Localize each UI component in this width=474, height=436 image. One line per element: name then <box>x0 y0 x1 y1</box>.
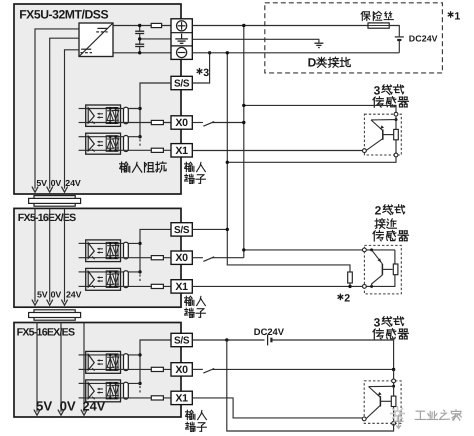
class-D ground symbol <box>314 43 323 47</box>
label 3-wire sensor bottom (Chinese) <box>373 315 409 339</box>
wire +24V rail to sensor2 <box>242 248 362 251</box>
svg-text:5V: 5V <box>36 178 47 188</box>
label input terminals block2 (Chinese) <box>185 296 206 317</box>
junction dot rail B top <box>242 24 245 27</box>
wire S/S to opto common column block1 <box>140 83 171 137</box>
label DC24V bottom <box>254 326 285 337</box>
extension bus connector between block1 and block2 <box>29 196 81 207</box>
label 3-wire sensor top (Chinese) <box>373 84 409 108</box>
wire S/S block3 to battery <box>192 338 264 341</box>
junction dots at capacitor column <box>138 24 141 55</box>
3-wire sensor S3 + terminal <box>392 379 396 383</box>
optocoupler PC2 block1 <box>79 133 121 154</box>
svg-text:2: 2 <box>344 293 350 305</box>
label FX5U-32MT/DSS <box>19 7 108 21</box>
optocoupler PC2 block3 <box>79 380 121 402</box>
svg-text:1: 1 <box>454 10 460 22</box>
5V rail arrow <box>32 187 38 193</box>
terminal X1 block2 <box>171 280 192 293</box>
pull-up resistor of PC2 block3 <box>121 382 141 399</box>
label FX5-16EX/ES block2 <box>18 212 76 224</box>
continuation ellipsis block2 <box>139 274 141 281</box>
note *1 <box>448 10 461 22</box>
wire sensor3 feed down <box>393 370 395 380</box>
wire sensor3 0V return loop <box>227 340 394 431</box>
filter capacitor C2 <box>135 39 144 53</box>
terminal X0 block2 <box>171 251 192 264</box>
svg-text:X0: X0 <box>175 252 188 264</box>
svg-text:X1: X1 <box>175 281 188 293</box>
wire opto1 to X0 resistor block1 <box>121 122 172 124</box>
wire S/S to opto common column block2 <box>140 229 171 272</box>
5V rail block3 <box>34 323 40 416</box>
svg-text:24V: 24V <box>65 178 81 188</box>
pull-up resistor of PC1 block3 <box>121 354 141 371</box>
optocoupler PC1 block1 <box>79 105 121 126</box>
sensor2 internal circuit <box>366 248 398 288</box>
3-wire sensor S3 output terminal <box>362 417 366 421</box>
svg-text:0V: 0V <box>51 290 62 300</box>
wire converter - output to terminal <box>113 52 171 54</box>
3-wire sensor S3 internal circuit <box>366 383 396 422</box>
junction dot X0 block1 to rail B <box>242 121 245 124</box>
terminal S/S block1 <box>171 76 192 89</box>
wire earth terminal to class-D ground <box>192 39 319 43</box>
terminal S/S block2 <box>171 223 192 236</box>
pull-up resistor of PC2 block1 <box>121 136 141 152</box>
3-wire sensor S1 + terminal <box>394 112 398 116</box>
svg-text:S/S: S/S <box>174 225 190 236</box>
label input terminals block3 (Chinese) <box>186 410 207 431</box>
junction dot opto1 feed block1 <box>138 107 141 110</box>
extension unit FX5-16EX/ES enclosure (block2) <box>14 208 181 307</box>
3-wire sensor S3 0V terminal <box>392 421 396 425</box>
bleed resistor *2 <box>348 272 353 288</box>
fuse F1 <box>368 23 389 28</box>
label class-D grounding (Chinese) <box>308 56 351 70</box>
label DC24V top <box>409 33 438 43</box>
battery DC24V (external supply) <box>395 37 404 53</box>
3-wire sensor S3 dashed enclosure <box>364 381 401 423</box>
optocoupler PC2 block2 <box>79 268 121 290</box>
filter capacitor C1 <box>135 26 144 39</box>
terminal X0 block3 <box>171 363 192 376</box>
sensor2 + terminal <box>363 248 367 252</box>
terminal - (circle minus) <box>177 47 187 57</box>
svg-text:FX5U-32MT/DSS: FX5U-32MT/DSS <box>19 7 108 21</box>
terminal earth (ground symbol) <box>175 34 188 44</box>
note *3 <box>197 67 210 79</box>
note *2 <box>338 293 351 305</box>
terminal X0 block1 <box>171 116 192 129</box>
terminal X1 block1 <box>171 144 192 157</box>
+24V distribution rail (node B) <box>243 26 245 258</box>
jumper wire S/S to minus terminal (*3) <box>192 51 211 83</box>
svg-text:24V: 24V <box>66 290 82 300</box>
input impedance resistor block3 X1 <box>151 396 163 400</box>
svg-text:5V: 5V <box>36 399 52 414</box>
terminal S/S block3 <box>171 333 192 346</box>
label fuse (Chinese) <box>361 12 393 21</box>
svg-text:FX5-16EX/ES: FX5-16EX/ES <box>18 212 76 224</box>
input impedance resistor block2 X0 <box>151 256 163 260</box>
wire sensor1 0V return to rail A <box>226 157 396 164</box>
0V rail block2 <box>47 208 53 305</box>
wire S/S block2 to rail A <box>192 228 229 231</box>
pull-up resistor of PC2 block2 <box>121 271 141 288</box>
continuation ellipsis block1 <box>139 139 141 146</box>
internal DC/DC power converter U1 <box>79 23 113 57</box>
label input terminals block1 (Chinese) <box>185 162 206 183</box>
wire S/S to opto common column block3 <box>140 340 171 383</box>
watermark logo (gray) <box>390 406 405 421</box>
svg-text:X0: X0 <box>175 364 188 376</box>
svg-text:0V: 0V <box>60 399 76 414</box>
svg-text:DC24V: DC24V <box>409 33 438 43</box>
3-wire sensor S1 dashed enclosure <box>364 114 401 155</box>
external supply dashed enclosure *1 <box>265 3 443 73</box>
wire opto1 to X0 resistor block3 <box>121 368 172 370</box>
wire battery - to minus terminal <box>192 52 399 54</box>
wire opto1 to X0 resistor block2 <box>121 257 172 259</box>
svg-text:0V: 0V <box>51 178 62 188</box>
svg-text:FX5-16EX/ES: FX5-16EX/ES <box>17 327 75 339</box>
extension bus connector between block2 and block3 <box>29 310 81 320</box>
labels 5V 0V 24V block3 <box>36 399 106 414</box>
5V rail block2 <box>32 208 38 305</box>
PLC base unit FX5U-32MT/DSS enclosure <box>14 4 181 194</box>
24V rail arrow <box>61 187 67 193</box>
label 2-wire proximity sensor (Chinese) <box>373 204 409 241</box>
junction dot opto2 feed block2 <box>138 270 141 273</box>
watermark text (gray Chinese) <box>415 410 461 420</box>
power terminal block <box>171 19 192 60</box>
svg-text:3: 3 <box>374 84 381 98</box>
0V rail block3 <box>58 323 64 416</box>
2-wire sensor S2 dashed enclosure <box>364 245 401 294</box>
internal series resistor R1 on + line <box>151 23 161 27</box>
24V rail block3 <box>81 323 87 416</box>
input impedance resistor block2 X1 <box>151 284 163 288</box>
wire sensor2 output to X1 block2 <box>192 285 362 287</box>
continuation ellipsis block3 <box>139 386 141 393</box>
labels 5V 0V 24V block1 <box>36 178 80 188</box>
input impedance resistor block3 X0 <box>151 367 163 371</box>
wire + terminal to fuse <box>192 25 368 27</box>
wire battery to sensor3 feed <box>271 340 393 370</box>
svg-text:3: 3 <box>374 315 381 329</box>
switch contact at X0 block1 <box>192 122 244 127</box>
wire converter to 24V rail <box>65 50 80 189</box>
labels 5V 0V 24V block2 <box>37 290 82 300</box>
pull-up resistor of PC1 block1 <box>121 107 141 123</box>
svg-text:X0: X0 <box>175 117 188 129</box>
wire opto2 to X1 resistor block2 <box>121 285 172 287</box>
pull-up resistor of PC1 block2 <box>121 242 141 259</box>
optocoupler PC1 block2 <box>79 240 121 262</box>
svg-text:D: D <box>308 56 317 70</box>
svg-text:3: 3 <box>203 67 209 79</box>
label FX5-16EX/ES block3 <box>17 327 75 339</box>
wire sensor1 output to X1 block1 <box>192 150 362 152</box>
3-wire sensor S1 output terminal <box>363 149 367 153</box>
24V rail block2 <box>61 208 67 305</box>
wire converter to 5V rail <box>35 29 79 189</box>
svg-text:2: 2 <box>375 204 382 218</box>
svg-text:S/S: S/S <box>174 79 190 90</box>
svg-text:X1: X1 <box>175 145 188 157</box>
sensor2 output terminal <box>363 285 367 289</box>
wire X1 block3 to sensor3 output <box>192 398 362 418</box>
optocoupler PC1 block3 <box>79 351 121 373</box>
svg-text:DC24V: DC24V <box>254 326 285 337</box>
wire +24V rail to sensor1 <box>242 104 396 112</box>
label input impedance (Chinese) <box>120 162 166 172</box>
junction dot opto1 feed block3 <box>138 353 141 356</box>
3-wire sensor S1 internal circuit <box>366 116 398 153</box>
junction dot X0 block3 feed <box>392 368 395 371</box>
junction dot rail A top <box>226 51 229 54</box>
wire opto2 to X1 resistor block3 <box>121 397 172 399</box>
wire opto2 to X1 resistor block1 <box>121 149 172 151</box>
0V distribution rail (node A) <box>227 53 350 272</box>
junction dot opto1 feed block2 <box>138 242 141 245</box>
battery DC24V (bottom section) <box>268 335 272 346</box>
terminal X1 block3 <box>171 391 192 404</box>
terminal + (circle plus) <box>177 21 187 31</box>
junction dot opto2 feed block3 <box>138 382 141 385</box>
3-wire sensor S1 0V terminal <box>394 153 398 157</box>
wire ground-cell to capacitor node <box>140 38 171 40</box>
switch contact at X0 block3 <box>192 369 393 374</box>
svg-text:X1: X1 <box>175 392 188 404</box>
switch contact at X0 block2 <box>192 257 244 262</box>
wire converter to 0V rail <box>50 38 79 188</box>
0V rail arrow <box>47 187 53 193</box>
input impedance resistor block1 X1 <box>151 148 163 152</box>
wire converter + output to terminal <box>113 25 171 27</box>
input impedance resistor block1 X0 <box>151 120 163 124</box>
extension unit FX5-16EX/ES enclosure (block3) <box>14 323 181 418</box>
wire fuse to battery + <box>389 26 399 37</box>
junction dot opto2 feed block1 <box>138 135 141 138</box>
svg-text:5V: 5V <box>37 290 48 300</box>
svg-text:S/S: S/S <box>174 336 190 347</box>
